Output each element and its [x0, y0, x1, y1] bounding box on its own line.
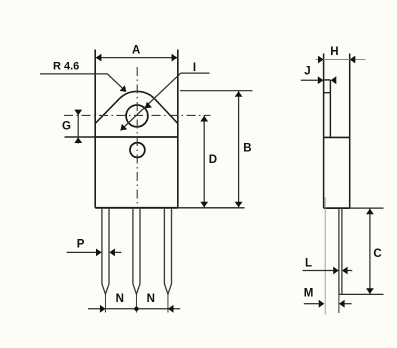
side view body bottom edge [324, 207, 350, 209]
I leader arrow at end [121, 124, 128, 131]
horizontal centerline through hole (dash-dot) [64, 114, 211, 116]
dimension J left arrow [318, 76, 324, 84]
dimension M right arrow [339, 300, 345, 308]
dimension N center dot [134, 307, 138, 311]
svg-text:H: H [330, 46, 338, 58]
vertical centerline (dash-dot) [136, 67, 138, 206]
body bottom extension line right for B and D [178, 207, 245, 209]
side view lead [339, 208, 342, 294]
svg-text:B: B [243, 143, 251, 155]
front view body left edge with A extension [94, 50, 96, 208]
R4.6 leader arrow [120, 85, 127, 92]
dimension G line [77, 110, 79, 144]
dimension B line [238, 91, 240, 208]
svg-text:L: L [305, 258, 312, 270]
front view lead 3 [164, 208, 171, 294]
dimension D line [203, 115, 205, 207]
side view tab top edge [324, 79, 331, 81]
dimension M right line [345, 303, 352, 305]
lead left edge extension below [338, 294, 340, 313]
dimension P left line and arrow [67, 251, 97, 253]
dimension J left line [301, 79, 318, 81]
side view body top edge [324, 136, 350, 138]
lower small hole [130, 143, 145, 158]
body bottom extension right for C [350, 207, 384, 209]
svg-text:J: J [304, 65, 310, 77]
dimension A right arrow [172, 54, 178, 62]
dimension L left arrow [333, 267, 339, 275]
side view tab step tick [324, 92, 331, 94]
lead 2 tip extension line [135, 294, 137, 312]
side view tab right edge [329, 80, 331, 137]
dimension H left arrow [318, 56, 324, 64]
dimension D top arrow [200, 116, 208, 122]
side view back face [323, 54, 325, 209]
dimension B top arrow [235, 91, 243, 97]
seating plane thin line [324, 197, 326, 315]
dimension H right arrow [350, 56, 356, 64]
dimension P right line and arrow [115, 251, 122, 253]
dimension N left arrow [100, 305, 106, 313]
dimension L right line [348, 270, 353, 272]
svg-text:N: N [116, 293, 124, 305]
shoulder extension line left for G [65, 136, 96, 138]
dimension C bottom arrow [366, 288, 374, 294]
side view front face [349, 54, 351, 209]
dimension N line [88, 308, 180, 310]
dimension A line [95, 57, 178, 59]
svg-text:M: M [304, 288, 314, 300]
svg-text:G: G [62, 121, 71, 133]
dimension J right arrow [331, 76, 337, 84]
front view tab left slope [95, 99, 119, 124]
dimension G top arrow [74, 110, 82, 116]
dimension G bottom arrow [74, 137, 82, 143]
dimension C top arrow [366, 209, 374, 215]
dimension L left line [303, 270, 334, 272]
svg-text:D: D [209, 154, 217, 166]
I leader diagonal [121, 73, 181, 130]
svg-text:I: I [193, 62, 196, 74]
svg-text:P: P [77, 239, 85, 251]
dimension H line [316, 59, 366, 61]
dimension B bottom arrow [235, 202, 243, 208]
lead end extension line for C and M [339, 293, 384, 295]
front view tab right slope [155, 99, 178, 123]
svg-text:N: N [147, 293, 155, 305]
front view lead 2 (center) [133, 208, 140, 294]
front view body right edge with A extension [177, 50, 179, 208]
I leader underline [181, 72, 210, 74]
svg-text:R 4.6: R 4.6 [53, 61, 79, 73]
lead 1 tip extension line [104, 294, 106, 312]
dimension C line [369, 208, 371, 294]
dimension N right arrow [168, 305, 174, 313]
front view tab top arc R4.6 [119, 91, 155, 99]
dimension L right arrow [342, 267, 348, 275]
I leader arrow at hole edge [145, 102, 152, 109]
front view shoulder line (body top) [95, 136, 178, 138]
front view lead 1 [102, 208, 109, 294]
mounting hole [126, 105, 148, 127]
dimension M left line [304, 303, 319, 305]
svg-text:A: A [132, 45, 140, 57]
front view body bottom edge [95, 207, 178, 209]
svg-text:C: C [373, 248, 381, 260]
dimension M left arrow [319, 300, 325, 308]
R4.6 leader line [40, 74, 125, 91]
tab top extension line for B [180, 90, 253, 92]
dimension A left arrow [96, 54, 102, 62]
dimension D bottom arrow [200, 202, 208, 208]
lead 3 tip extension line [167, 294, 169, 312]
